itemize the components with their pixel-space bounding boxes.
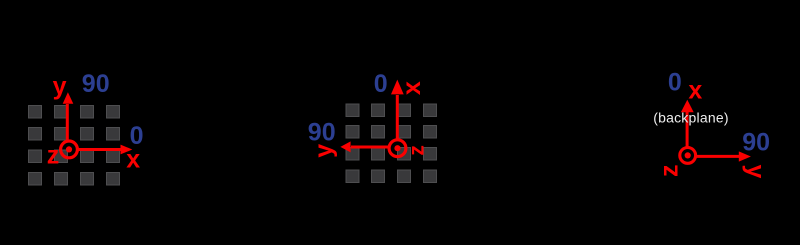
x-axis arrow (figure 1): [76, 145, 132, 155]
svg-text:y: y: [310, 144, 338, 158]
svg-text:(backplane): (backplane): [653, 110, 729, 126]
svg-text:y: y: [53, 73, 67, 101]
z-axis origin symbol (figure 3): [680, 148, 696, 164]
y-axis arrow (figure 1): [63, 92, 74, 142]
svg-text:x: x: [126, 146, 140, 174]
svg-text:90: 90: [742, 129, 770, 157]
svg-text:z: z: [405, 145, 428, 156]
z-axis origin symbol (figure 2): [389, 140, 406, 157]
x-axis arrow pointing up (figure 2): [391, 80, 404, 140]
svg-text:y: y: [742, 165, 770, 179]
pixel-array grid (figure 2): [346, 104, 437, 183]
svg-text:z: z: [47, 142, 60, 170]
svg-text:z: z: [655, 164, 683, 177]
svg-text:x: x: [688, 77, 702, 105]
svg-text:0: 0: [374, 70, 388, 98]
pixel-array grid (figure 1): [29, 106, 120, 186]
y-axis arrow pointing right (figure 3): [695, 151, 751, 161]
svg-text:90: 90: [308, 119, 336, 147]
svg-text:90: 90: [82, 70, 110, 98]
svg-text:0: 0: [668, 69, 682, 97]
x-axis arrow pointing up (figure 3): [681, 100, 694, 147]
svg-text:x: x: [398, 81, 426, 95]
z-axis origin symbol (figure 1): [61, 141, 78, 158]
y-axis arrow pointing left (figure 2): [340, 141, 390, 152]
